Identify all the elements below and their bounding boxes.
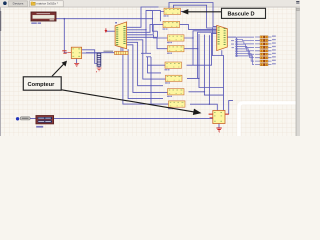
resistor R6 bbox=[255, 53, 276, 56]
svg-text:Devices: Devices bbox=[13, 2, 24, 6]
wire U2 bottom bbox=[76, 59, 78, 64]
wire matrix out long horizontal bbox=[56, 18, 153, 20]
dot matrix display MAT1 bbox=[31, 12, 56, 21]
wire clock long horizontal bbox=[30, 117, 213, 119]
small label above bus bbox=[104, 51, 114, 52]
IC U9 bottom bbox=[213, 111, 225, 124]
resistor R4 bbox=[255, 46, 276, 49]
right scrollbar bbox=[296, 7, 300, 136]
wire top bus 1 bbox=[169, 3, 217, 27]
wire c8 vert up bbox=[208, 35, 210, 104]
resistor R2 bbox=[255, 39, 276, 42]
IC U5 (74HC) bbox=[165, 62, 182, 70]
wire t1 bottom pin2 stub bbox=[128, 49, 163, 99]
resistor R1 bbox=[255, 36, 276, 39]
devices icon circle bbox=[3, 1, 7, 5]
svg-text:Compteur: Compteur bbox=[28, 82, 56, 88]
wire t2 out to bus bbox=[227, 36, 236, 38]
wire t1 bottom pin bbox=[120, 48, 122, 52]
wire fan branch 5 bbox=[237, 47, 255, 51]
junction dot v204 bbox=[204, 91, 205, 92]
wire U9 gnd stem bbox=[218, 124, 220, 128]
ground symbol below ladder bbox=[96, 68, 102, 72]
folder icon bbox=[31, 2, 35, 5]
wire t1 input left bbox=[106, 30, 115, 32]
logic state pill bbox=[20, 117, 30, 120]
junction dot W1 end bbox=[152, 18, 153, 19]
wire U2 right2 bbox=[82, 52, 97, 54]
junction dot fan 2 bbox=[236, 39, 238, 41]
IC U8 (74HC) bbox=[168, 101, 185, 109]
svg-text:matrice 5x5(5x *: matrice 5x5(5x * bbox=[36, 2, 59, 6]
resistor R3 bbox=[255, 42, 276, 45]
junction dot W1 branch bbox=[64, 18, 66, 20]
IC U3 (74HC) bbox=[167, 35, 184, 43]
junction dot harness bbox=[145, 29, 146, 30]
window top-right marks bbox=[296, 0, 299, 3]
wire branch down to U2 bbox=[64, 19, 67, 53]
wire fan branch 7 bbox=[237, 51, 255, 58]
junction dot fan 9 bbox=[236, 55, 238, 57]
wire t1 out5 to c4 left bbox=[127, 37, 168, 48]
tab Devices bbox=[9, 1, 28, 7]
annotation arrow to bascule bbox=[181, 9, 221, 14]
wire U9 top pin3 L bbox=[209, 104, 217, 110]
annotation arrow compteur to U9 bbox=[62, 90, 202, 115]
counter IC U2 bbox=[71, 47, 81, 58]
wire c6 right to U9 L1 bbox=[187, 78, 224, 87]
wire harness h56.8 bbox=[146, 56, 151, 58]
annotation box Bascule D bbox=[222, 8, 266, 18]
wire fan branch 3 bbox=[237, 42, 255, 44]
ground symbol below U9 bbox=[216, 128, 221, 132]
U9 red pin stubs bbox=[209, 114, 229, 119]
wire c5 right to t2 in6 bbox=[187, 33, 217, 65]
clock generator CLK1 bbox=[36, 116, 54, 124]
wire v197 lower bbox=[197, 49, 199, 79]
tab bar background bbox=[0, 0, 300, 7]
wire fan branch 9 bbox=[237, 56, 255, 65]
window left edge bbox=[0, 7, 2, 136]
wire fan bus vertical bbox=[236, 37, 238, 56]
junction dot fan 6 bbox=[236, 48, 238, 50]
wire t1 out4 to c3 left bbox=[127, 35, 168, 38]
wire c8 right join bbox=[190, 103, 209, 105]
junction dot v199 bbox=[198, 78, 199, 79]
resistor R7 bbox=[255, 56, 276, 59]
wire h10.6 spur bbox=[146, 10, 152, 12]
wire t1 out1 to c1 top bbox=[127, 7, 159, 27]
IC U7 (74HC) bbox=[167, 89, 184, 97]
wire bus row bbox=[86, 52, 115, 54]
junction dot v193 bbox=[192, 37, 193, 38]
wire c5 left pin bbox=[148, 64, 166, 66]
wire c2 right to t2 in3 bbox=[180, 25, 217, 30]
wire ladder bottom bbox=[98, 67, 100, 68]
wire t2 bottom loop bbox=[212, 27, 221, 55]
blue probe dot bbox=[16, 117, 19, 120]
wire c7 vert up bbox=[203, 35, 205, 92]
junction dot fan 7 bbox=[236, 50, 238, 52]
power flag for U3 bbox=[105, 28, 108, 33]
svg-text:Bascule D: Bascule D bbox=[228, 11, 255, 17]
wire c5 feeder vertical bbox=[148, 57, 162, 73]
wire W1 down leg bbox=[152, 19, 157, 32]
IC U2 (74HC) bbox=[163, 21, 180, 29]
wire c1 right stub bbox=[181, 11, 183, 13]
junction dot v197 bbox=[197, 48, 198, 49]
wire fan branch 8 bbox=[237, 54, 255, 62]
wire t1 bottom pin1 to c8 left bbox=[123, 48, 169, 105]
wire fan branch 6 bbox=[237, 49, 255, 54]
wire c4 right to t2 in5 bbox=[184, 32, 217, 49]
resistor network ladder RN1 bbox=[97, 53, 101, 66]
junction dot v209 bbox=[209, 104, 210, 105]
wire t1 out3 to c2 left bbox=[127, 25, 164, 33]
wire c3 right to t2 in4 bbox=[184, 31, 217, 38]
wire c6 vert up bbox=[198, 34, 200, 78]
wire fan branch 1 bbox=[237, 36, 255, 38]
schematic sheet background bbox=[0, 7, 300, 136]
wire v146 lower bbox=[145, 30, 147, 54]
IC U1 (74HC) bbox=[164, 8, 181, 16]
label below MAT1 bbox=[31, 22, 37, 24]
blue pin dot above U3 bbox=[115, 22, 117, 24]
wire harness h53.3 bbox=[141, 52, 151, 54]
wire v153 upper bbox=[152, 25, 154, 34]
tab matrice active bbox=[30, 1, 64, 7]
wire t1 out2 to c1 left bbox=[127, 11, 165, 30]
resistor R8 bbox=[255, 60, 276, 63]
multiplexer U3 trapezoid left bbox=[115, 22, 127, 49]
wire t1 out8 to c7 left bbox=[127, 45, 168, 93]
wire v160 down bbox=[160, 12, 162, 22]
wire v193 lower bbox=[192, 38, 194, 65]
white highlight band corner bbox=[239, 103, 296, 136]
junction dot fan 5 bbox=[236, 46, 238, 48]
wire U2 right to ladder bbox=[82, 50, 95, 53]
resistor R9 bbox=[255, 63, 276, 66]
wire fan branch 2 bbox=[237, 39, 255, 40]
wire left vert down bbox=[150, 57, 152, 104]
wire top bus 2 bbox=[174, 5, 217, 28]
U2 red pin names left bbox=[62, 50, 71, 53]
annotation box Compteur bbox=[23, 77, 61, 90]
junction dot fan 8 bbox=[236, 53, 238, 55]
wire ladder left vertical bbox=[95, 53, 97, 64]
label below CLK1 bbox=[36, 126, 43, 128]
ground symbol below U2 bbox=[74, 63, 79, 66]
IC U4 (74HC) bbox=[167, 46, 184, 54]
resistor array strip RN2 bbox=[115, 51, 129, 54]
wire fan branch 4 bbox=[237, 44, 255, 47]
multiplexer U8 trapezoid right bbox=[217, 25, 228, 50]
wire t1 out7 mid stub bbox=[127, 42, 163, 85]
junction dot fan 4 bbox=[236, 43, 238, 45]
wire v157 link bbox=[157, 31, 159, 37]
wire t2 bottom down long bbox=[222, 56, 224, 111]
wire U9 right up L bbox=[229, 101, 233, 115]
wire c7 right to U9 L2 bbox=[189, 92, 224, 95]
wire t1 out6 to c6 left bbox=[127, 40, 166, 79]
wire W1 up join bbox=[151, 11, 153, 19]
annotation arrow compteur to U2 bbox=[52, 61, 67, 77]
junction dot fan 3 bbox=[236, 41, 238, 43]
IC U6 (74HC) bbox=[165, 75, 182, 83]
resistor R5 bbox=[255, 49, 276, 52]
